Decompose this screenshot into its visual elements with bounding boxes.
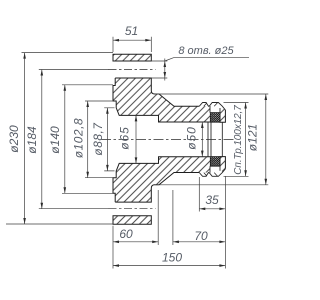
leader for hole label [165, 58, 249, 61]
bolt hole center line top [109, 69, 156, 71]
bolt hole center line bottom [109, 208, 156, 210]
svg-text:51: 51 [125, 24, 138, 38]
svg-text:ø230: ø230 [7, 125, 21, 153]
svg-text:ø140: ø140 [48, 126, 62, 154]
dimension 60/70 extension lines [113, 190, 225, 245]
svg-text:Сп.Тр.100х12,7: Сп.Тр.100х12,7 [233, 105, 244, 175]
dimension 35 extension line [199, 177, 225, 214]
bore end wall chamfer lines [208, 122, 211, 157]
dimension d230 line [24, 53, 26, 224]
svg-text:ø65: ø65 [118, 126, 132, 149]
svg-text:ø50: ø50 [185, 126, 199, 149]
dimension d50 line [201, 122, 203, 157]
hole dim d25 arrows [164, 59, 166, 81]
dimension d184 extension lines [39, 70, 109, 209]
svg-text:60: 60 [119, 227, 133, 241]
dimension 150 line [113, 265, 225, 267]
dimension d184 line [41, 70, 43, 209]
outline: flange top strip [113, 54, 151, 61]
dimension d88.7 line [106, 108, 108, 171]
seal groove walls [210, 106, 220, 173]
section hatch: upper right sliver [220, 106, 225, 122]
seal ring bottom [210, 157, 220, 167]
dimension d140 line [64, 85, 66, 194]
thread teeth bottom inner lines [204, 173, 218, 177]
bolt hole edge extensions right of flange [151, 61, 167, 78]
svg-text:ø184: ø184 [25, 126, 39, 154]
axis center line [101, 138, 236, 140]
thread teeth bottom [199, 169, 225, 177]
dimension d230 extension lines [6, 53, 113, 224]
outline: flange bottom strip [113, 216, 151, 224]
dimension 150 extension lines [113, 245, 225, 269]
section hatch: flange bottom strip [113, 216, 151, 224]
section hatch: lower body [113, 157, 210, 202]
dimension d121 extension lines [155, 94, 268, 185]
thread spec extension lines [224, 103, 249, 177]
dimension 70 line [173, 241, 226, 243]
svg-text:70: 70 [194, 229, 208, 243]
outline: upper body profile [113, 78, 225, 122]
thread teeth top inner lines [204, 103, 218, 107]
section hatch: flange top strip [113, 54, 151, 61]
svg-text:35: 35 [205, 193, 219, 207]
dimension d121 line [265, 94, 267, 185]
outline: lower body profile [113, 157, 225, 203]
svg-text:8 отв. ø25: 8 отв. ø25 [178, 45, 234, 57]
seal ring top [210, 113, 220, 123]
svg-text:150: 150 [162, 251, 182, 265]
dimension d102.8 line [87, 101, 89, 178]
dimension 35 line [199, 208, 225, 210]
section hatch: lower right sliver [220, 157, 225, 173]
dimension 51 line [113, 39, 151, 41]
thread teeth top [199, 103, 225, 111]
dimension 60 line [113, 241, 158, 243]
dimension 51 extension lines [113, 37, 151, 52]
dimension d65 line [135, 115, 137, 163]
right face inner chamfer line [221, 122, 223, 156]
svg-text:ø121: ø121 [246, 124, 260, 151]
svg-text:ø88,7: ø88,7 [91, 122, 105, 155]
dimension d102.8 extension lines [85, 101, 113, 178]
thread spec dimension line [245, 103, 247, 177]
section hatch: upper body [113, 78, 210, 122]
dimension d88.7 extension lines [104, 108, 114, 171]
svg-text:ø102,8: ø102,8 [72, 118, 86, 158]
dimension d140 extension lines [62, 85, 113, 194]
